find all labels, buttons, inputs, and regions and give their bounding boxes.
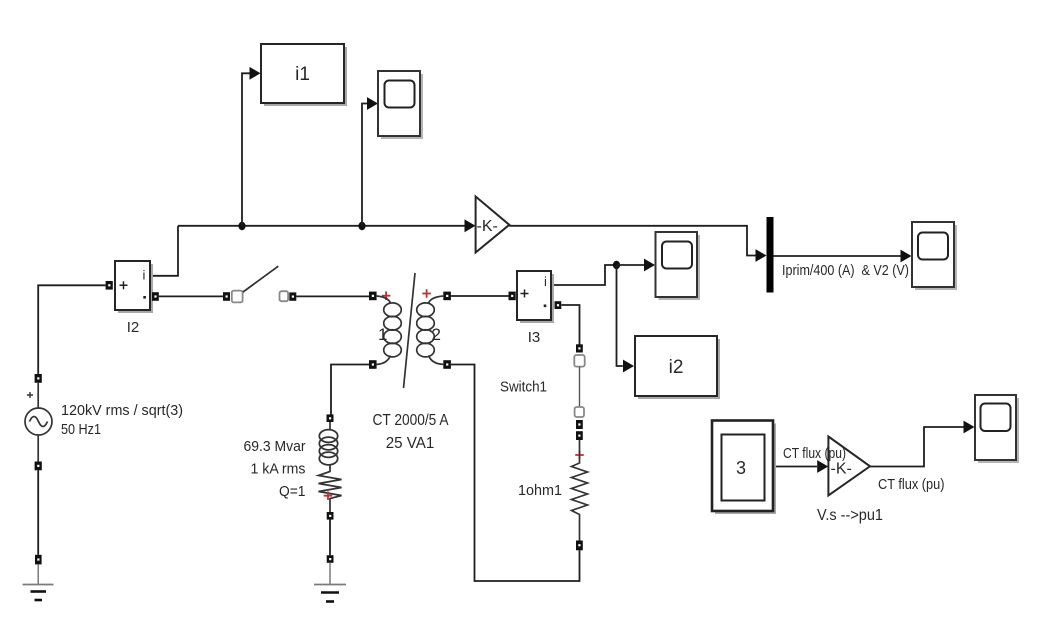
transformer core: [404, 273, 416, 388]
port I3 left: [509, 292, 516, 301]
wire J3 down to i2: [617, 265, 623, 366]
svg-text:i: i: [143, 268, 146, 283]
gain U1: [476, 197, 510, 253]
scope Sc3: [912, 222, 957, 290]
current measurement I2: [115, 261, 153, 313]
wire J3 to scope Sc2: [617, 264, 645, 266]
RL branch 69.3 Mvar: [319, 414, 342, 519]
svg-text:1ohm1: 1ohm1: [518, 482, 562, 499]
svg-text:69.3 Mvar: 69.3 Mvar: [244, 438, 306, 455]
port transformer bottom-right: [443, 360, 451, 369]
wire main bus to gain U1: [178, 225, 465, 227]
wire transformer bottom-left to RL branch: [331, 365, 369, 415]
mux M1: [767, 217, 774, 293]
svg-text:I3: I3: [528, 329, 541, 346]
svg-text:I2: I2: [127, 319, 140, 336]
node J3: [613, 261, 620, 269]
wire J2 up to scope Sc1: [362, 104, 367, 226]
arrow into gain U1: [465, 219, 476, 232]
wire gain U1 to mux: [509, 226, 756, 256]
node J2: [358, 222, 365, 230]
port transformer top-right: [443, 292, 451, 301]
port RL ground: [327, 555, 334, 563]
svg-text:CT 2000/5 A: CT 2000/5 A: [373, 412, 450, 429]
wire switch to transformer: [296, 295, 369, 297]
svg-text:3: 3: [736, 458, 746, 478]
wire source bottom to ground port: [37, 470, 39, 555]
wire source to I2 input: [38, 285, 105, 374]
scope Sc2: [656, 232, 701, 300]
svg-text:25 VA1: 25 VA1: [386, 435, 435, 452]
ground G2: [314, 563, 346, 602]
resistor zigzag: [319, 465, 342, 512]
wire I2 i-output to main bus: [150, 226, 179, 276]
port I2 left: [106, 281, 113, 290]
constant block 3: [712, 421, 776, 515]
block i1: [261, 44, 347, 106]
wire I3 i-output to node J3: [551, 265, 617, 285]
svg-text:CT flux (pu): CT flux (pu): [878, 477, 945, 493]
port I3 minus: [555, 301, 562, 309]
svg-text:50 Hz1: 50 Hz1: [61, 421, 101, 438]
scope Sc4: [975, 395, 1019, 463]
resistor 1ohm1: [572, 431, 588, 550]
svg-text:2: 2: [432, 325, 441, 344]
wire mux to scope Sc3: [774, 255, 901, 257]
current measurement I3: [517, 271, 554, 323]
port RL bottom: [327, 512, 334, 520]
port source bottom: [35, 462, 42, 471]
breaker switch (horizontal): [223, 266, 296, 302]
svg-text:i1: i1: [295, 64, 310, 85]
svg-text:-K-: -K-: [831, 461, 852, 478]
AC source 120kV: [25, 374, 52, 470]
svg-text:-K-: -K-: [477, 218, 498, 235]
svg-text:Iprim/400 (A) & V2 (V): Iprim/400 (A) & V2 (V): [782, 262, 909, 279]
wire J1 up to i1: [242, 73, 250, 226]
port source ground: [35, 555, 42, 565]
inductor coil: [319, 430, 337, 443]
breaker Switch1 (vertical): [574, 344, 584, 429]
polarity mark primary: [382, 291, 391, 300]
secondary winding: [429, 296, 444, 303]
svg-text:1 kA rms: 1 kA rms: [251, 461, 306, 478]
polarity mark secondary: [422, 289, 431, 298]
svg-text:Switch1: Switch1: [500, 379, 547, 396]
block i2: [635, 336, 720, 399]
port transformer top-left: [369, 292, 377, 301]
primary winding: [377, 296, 391, 303]
transformer CT 2000/5 A: [369, 273, 451, 388]
gain U2: [828, 437, 870, 496]
wire I2 minus to switch: [159, 295, 223, 297]
svg-text:i2: i2: [669, 357, 684, 378]
port RL top: [327, 414, 334, 422]
svg-text:V.s -->pu1: V.s -->pu1: [817, 507, 883, 524]
svg-text:Q=1: Q=1: [279, 483, 306, 500]
svg-text:CT flux (pu): CT flux (pu): [783, 446, 846, 462]
port transformer bottom-left: [369, 360, 377, 369]
svg-text:120kV rms / sqrt(3): 120kV rms / sqrt(3): [61, 402, 183, 419]
wire 1ohm1 bottom loop to transformer: [451, 365, 580, 582]
svg-text:i: i: [544, 274, 547, 289]
svg-text:1: 1: [378, 325, 387, 344]
polarity mark RL: [324, 491, 333, 500]
wire I3 minus down to Switch1: [562, 305, 580, 345]
wire constant 3 to gain U2: [774, 466, 818, 468]
ground G1: [23, 564, 54, 600]
wire RL bottom to ground port: [329, 520, 331, 556]
wire transformer to I3: [451, 295, 509, 297]
port I2 minus: [152, 292, 159, 301]
wire gain U2 to scope Sc4: [870, 427, 964, 467]
scope Sc1: [378, 71, 423, 139]
node J1: [238, 222, 245, 230]
port source top: [35, 374, 42, 383]
